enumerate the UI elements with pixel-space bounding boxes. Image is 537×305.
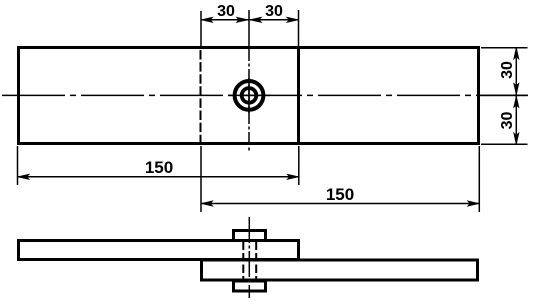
svg-text:30: 30	[499, 112, 516, 130]
extension line left (top 30 dim)	[200, 11, 202, 47]
arrow down to middle (right dim)	[514, 83, 519, 95]
arrow right of first 30 segment	[236, 17, 248, 22]
arrow up of right dim	[514, 48, 519, 60]
dimension line 30/30 top	[201, 19, 299, 21]
extension line bottom (right 30 dim)	[481, 143, 528, 145]
arrow left of top dim	[201, 17, 213, 22]
extension line left (150 lower dim)	[200, 146, 202, 212]
arrow up to middle (right dim)	[514, 96, 519, 108]
horizontal centerline	[2, 94, 528, 96]
arrow right of 150 lower	[468, 201, 480, 206]
plate outline top view	[19, 48, 479, 144]
svg-text:150: 150	[326, 185, 354, 204]
extension line right (150 upper dim)	[298, 146, 300, 185]
bolt head outer circle (top view)	[235, 81, 264, 110]
extension line right (top 30 dim)	[298, 10, 300, 47]
svg-text:30: 30	[265, 3, 283, 20]
svg-text:150: 150	[145, 158, 173, 177]
dimension line 150 lower	[201, 203, 479, 205]
extension line left (150 upper dim)	[17, 146, 19, 185]
svg-text:30: 30	[499, 61, 516, 79]
hidden shank line right (side view)	[255, 242, 257, 282]
arrow right of top dim	[287, 17, 299, 22]
extension line top (right 30 dim)	[481, 47, 528, 49]
dimension line 30/30 right	[515, 48, 517, 145]
nut side view	[234, 281, 266, 291]
extension line middle (right 30 dim)	[481, 94, 528, 96]
arrow left of 150 upper	[18, 174, 30, 179]
arrow left of 150 lower	[201, 201, 213, 206]
bolt head side view	[234, 231, 266, 241]
upper plate side view	[19, 241, 299, 260]
hidden shank line left (side view)	[242, 242, 244, 282]
hidden left edge of lower plate (top view)	[200, 50, 202, 143]
vertical centerline bolt axis (top view)	[248, 10, 250, 152]
crosshair through bolt circle	[228, 78, 270, 113]
svg-text:30: 30	[217, 3, 235, 20]
bolt centerline side view	[248, 217, 250, 298]
bolt shank inner circle (top view)	[242, 88, 257, 103]
lower plate side view	[202, 260, 478, 280]
arrow right of 150 upper	[287, 174, 299, 179]
right edge of upper plate (top view)	[297, 46, 300, 145]
arrow down of right dim	[514, 133, 519, 145]
dimension line 150 upper	[18, 176, 299, 178]
extension line right (150 lower dim)	[478, 146, 480, 212]
arrow left of second 30 segment	[250, 17, 262, 22]
